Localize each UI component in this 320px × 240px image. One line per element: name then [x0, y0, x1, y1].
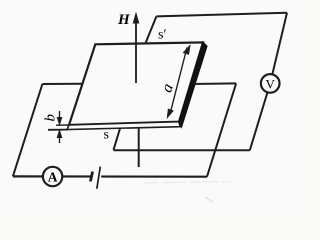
svg-text:s: s — [104, 128, 109, 143]
dimension arrow b upper (points down) — [57, 111, 61, 125]
svg-text:V: V — [266, 76, 276, 91]
wire: voltmeter loop top rail — [156, 13, 287, 17]
wire: current loop bottom rail — [13, 175, 207, 178]
sample plate front face (thickness b) — [67, 122, 180, 130]
sample plate top face — [69, 42, 203, 125]
dimension b extension stubs — [56, 124, 70, 126]
wire: bottom horizontal of voltmeter loop — [114, 149, 250, 151]
svg-text:b: b — [43, 114, 59, 122]
wire: lead from contact s down — [114, 129, 121, 150]
field line H through plate (lower segment) — [138, 129, 140, 168]
svg-text:A: A — [48, 170, 58, 185]
magnetic field H arrow — [133, 14, 138, 84]
voltmeter U1 circle V — [261, 74, 280, 93]
dimension arrow b lower (points up) — [57, 130, 61, 143]
dimension arrow a (double-headed) — [167, 46, 190, 118]
wire: current loop right edge — [207, 83, 236, 176]
wire: current loop (A-loop) top edge left segment — [42, 83, 82, 85]
svg-text:H: H — [117, 12, 131, 28]
svg-text:s′: s′ — [158, 28, 167, 43]
ammeter U2 circle A — [43, 167, 62, 186]
wire: voltmeter loop left lead from contact s' — [146, 16, 157, 43]
sample plate right side face (dark) — [179, 42, 207, 126]
wire: voltmeter loop right edge through V — [250, 13, 287, 151]
wire: current loop left edge — [13, 84, 43, 176]
battery B1 — [90, 167, 101, 189]
wire: current loop top edge right segment — [192, 82, 236, 85]
faint scan bleed-through smudges (decorative) — [143, 182, 231, 203]
